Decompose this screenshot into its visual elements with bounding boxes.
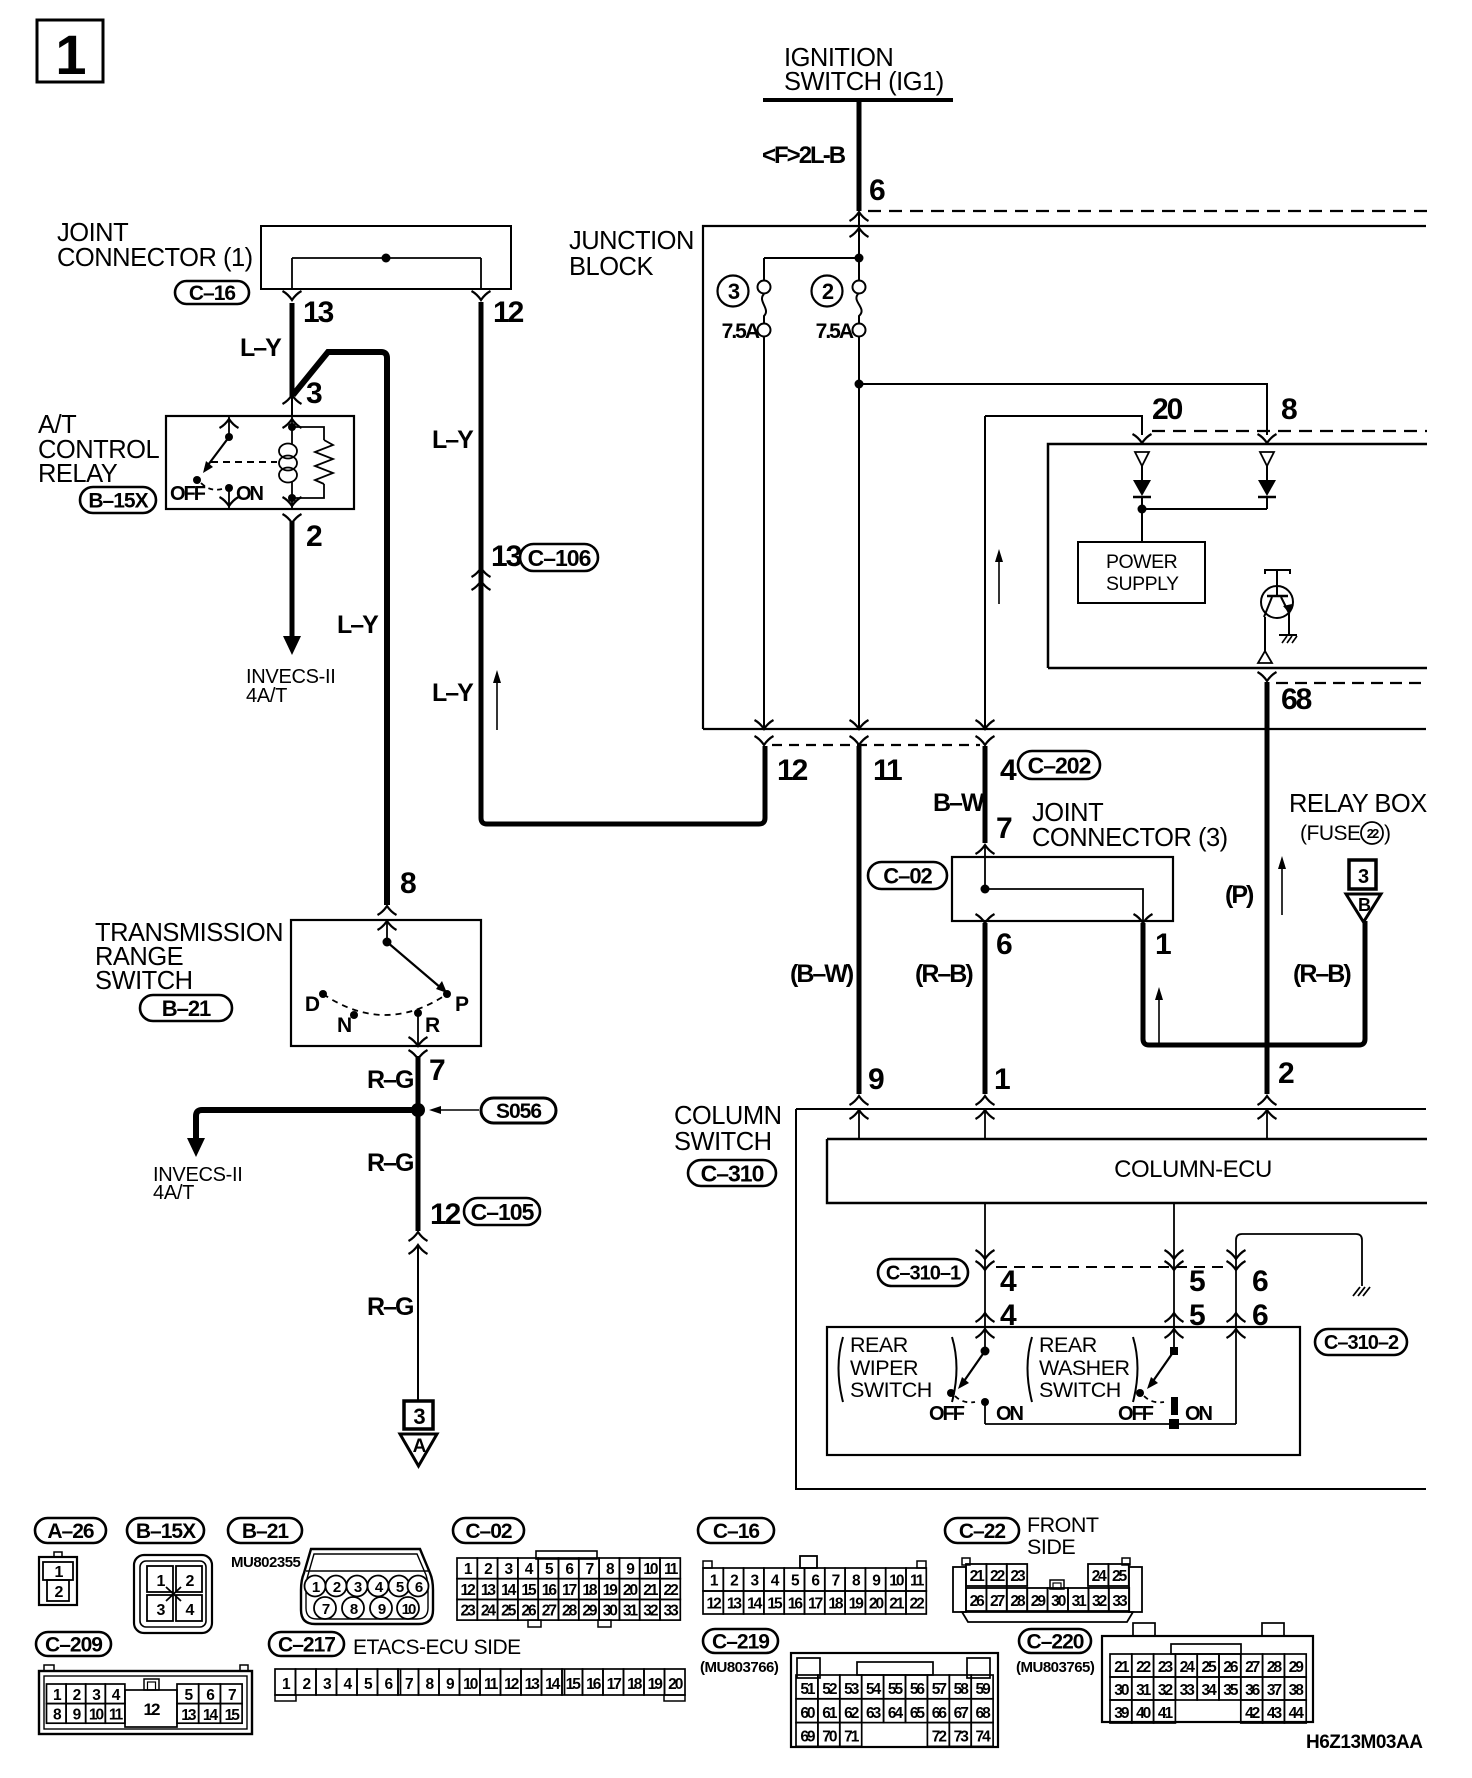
svg-text:72: 72 <box>932 1729 947 1746</box>
svg-text:BLOCK: BLOCK <box>569 253 653 281</box>
svg-text:27: 27 <box>542 1603 557 1620</box>
svg-text:WIPER: WIPER <box>850 1356 918 1380</box>
svg-text:C–105: C–105 <box>471 1199 535 1225</box>
svg-text:17: 17 <box>607 1676 622 1693</box>
svg-text:L–Y: L–Y <box>432 426 474 454</box>
svg-text:17: 17 <box>808 1596 823 1613</box>
svg-text:C–310–1: C–310–1 <box>886 1263 961 1285</box>
svg-text:2: 2 <box>1278 1057 1294 1090</box>
svg-text:RELAY BOX: RELAY BOX <box>1289 790 1427 818</box>
svg-text:10: 10 <box>89 1707 104 1724</box>
svg-text:L–Y: L–Y <box>337 611 379 639</box>
svg-text:REAR: REAR <box>1039 1333 1097 1357</box>
svg-text:40: 40 <box>1136 1705 1151 1722</box>
svg-text:SWITCH: SWITCH <box>850 1378 932 1402</box>
svg-text:7.5A: 7.5A <box>722 320 760 343</box>
svg-text:12: 12 <box>707 1596 722 1613</box>
svg-text:22: 22 <box>664 1582 679 1599</box>
svg-text:20: 20 <box>668 1676 683 1693</box>
svg-text:C–217: C–217 <box>278 1634 335 1657</box>
svg-text:(MU803765): (MU803765) <box>1016 1659 1095 1676</box>
svg-text:32: 32 <box>1158 1682 1173 1699</box>
svg-text:ON: ON <box>996 1403 1024 1425</box>
svg-text:30: 30 <box>603 1603 618 1620</box>
svg-text:C–202: C–202 <box>1028 752 1091 778</box>
svg-text:7: 7 <box>429 1054 445 1087</box>
svg-text:70: 70 <box>822 1729 837 1746</box>
svg-text:COLUMN-ECU: COLUMN-ECU <box>1114 1156 1272 1183</box>
svg-text:P: P <box>455 993 469 1016</box>
svg-text:67: 67 <box>954 1705 969 1722</box>
svg-text:<F>2L-B: <F>2L-B <box>762 142 846 169</box>
svg-text:20: 20 <box>1152 393 1183 426</box>
svg-text:C–220: C–220 <box>1027 1631 1084 1654</box>
svg-text:3: 3 <box>306 377 322 410</box>
svg-text:H6Z13M03AA: H6Z13M03AA <box>1306 1732 1423 1753</box>
svg-text:8: 8 <box>400 867 416 900</box>
svg-text:POWER: POWER <box>1106 551 1178 573</box>
svg-text:1: 1 <box>1155 928 1171 961</box>
svg-text:30: 30 <box>1114 1682 1129 1699</box>
svg-text:C–16: C–16 <box>713 1520 760 1543</box>
svg-text:OFF: OFF <box>1118 1403 1154 1425</box>
svg-text:C–02: C–02 <box>883 863 932 888</box>
svg-text:C–106: C–106 <box>528 545 591 571</box>
svg-text:10: 10 <box>463 1676 478 1693</box>
svg-text:SUPPLY: SUPPLY <box>1106 573 1179 595</box>
svg-text:(R–B): (R–B) <box>915 960 973 988</box>
svg-text:CONNECTOR (3): CONNECTOR (3) <box>1032 824 1228 852</box>
svg-text:22: 22 <box>1367 826 1379 841</box>
svg-text:R–G: R–G <box>367 1066 413 1094</box>
svg-text:CONNECTOR (1): CONNECTOR (1) <box>57 244 253 272</box>
svg-text:32: 32 <box>643 1603 658 1620</box>
svg-text:12: 12 <box>504 1676 519 1693</box>
svg-text:REAR: REAR <box>850 1333 908 1357</box>
svg-text:C–219: C–219 <box>712 1631 769 1654</box>
svg-text:3: 3 <box>413 1404 425 1429</box>
svg-text:B–15X: B–15X <box>136 1520 196 1543</box>
svg-text:B–W: B–W <box>933 789 985 817</box>
svg-text:R: R <box>425 1014 440 1037</box>
svg-text:): ) <box>1384 822 1391 845</box>
svg-text:SWITCH: SWITCH <box>1039 1378 1121 1402</box>
svg-text:C–310: C–310 <box>701 1160 764 1186</box>
svg-text:OFF: OFF <box>929 1403 965 1425</box>
svg-text:C–22: C–22 <box>959 1520 1006 1543</box>
svg-text:R–G: R–G <box>367 1149 413 1177</box>
svg-text:32: 32 <box>1092 1593 1107 1610</box>
svg-text:4A/T: 4A/T <box>153 1182 194 1204</box>
svg-text:10: 10 <box>889 1573 904 1590</box>
svg-text:L–Y: L–Y <box>240 334 282 362</box>
svg-text:1: 1 <box>994 1063 1010 1096</box>
svg-text:B–21: B–21 <box>162 996 211 1021</box>
svg-text:C–310–2: C–310–2 <box>1324 1332 1399 1354</box>
svg-text:(R–B): (R–B) <box>1293 960 1351 988</box>
svg-text:4A/T: 4A/T <box>246 685 287 707</box>
svg-text:SWITCH (IG1): SWITCH (IG1) <box>784 68 944 96</box>
svg-text:52: 52 <box>822 1681 837 1698</box>
svg-text:SIDE: SIDE <box>1027 1535 1075 1559</box>
svg-text:C–16: C–16 <box>189 282 236 305</box>
svg-text:SWITCH: SWITCH <box>95 967 193 995</box>
svg-text:12: 12 <box>144 1700 160 1719</box>
svg-text:22: 22 <box>1136 1659 1151 1676</box>
svg-text:(P): (P) <box>1225 881 1254 909</box>
svg-text:A–26: A–26 <box>47 1520 94 1543</box>
svg-text:L–Y: L–Y <box>432 679 474 707</box>
svg-text:12: 12 <box>493 296 524 329</box>
svg-text:4: 4 <box>1000 754 1017 787</box>
svg-text:R–G: R–G <box>367 1293 413 1321</box>
svg-text:12: 12 <box>430 1198 461 1231</box>
svg-text:6: 6 <box>869 174 885 207</box>
svg-text:JOINT: JOINT <box>1032 799 1103 827</box>
svg-text:13: 13 <box>491 540 522 573</box>
svg-text:7.5A: 7.5A <box>816 320 854 343</box>
svg-text:3: 3 <box>728 279 740 304</box>
svg-text:10: 10 <box>643 1561 658 1578</box>
svg-text:2: 2 <box>822 279 834 304</box>
svg-text:27: 27 <box>990 1593 1005 1610</box>
svg-text:2: 2 <box>306 520 322 553</box>
svg-text:20: 20 <box>869 1596 884 1613</box>
svg-text:6: 6 <box>996 928 1012 961</box>
svg-text:8: 8 <box>1281 393 1297 426</box>
svg-text:20: 20 <box>623 1582 638 1599</box>
svg-text:9: 9 <box>868 1063 884 1096</box>
svg-text:RELAY: RELAY <box>38 460 118 488</box>
svg-text:N: N <box>337 1014 351 1037</box>
svg-text:JUNCTION: JUNCTION <box>569 227 694 255</box>
svg-text:11: 11 <box>873 754 902 787</box>
svg-text:S056: S056 <box>496 1100 541 1123</box>
svg-text:6: 6 <box>1252 1265 1268 1298</box>
svg-text:37: 37 <box>1267 1682 1282 1699</box>
svg-text:FRONT: FRONT <box>1027 1513 1099 1537</box>
svg-text:1: 1 <box>55 23 85 86</box>
svg-text:B–15X: B–15X <box>88 490 148 513</box>
svg-text:17: 17 <box>562 1582 577 1599</box>
svg-text:7: 7 <box>996 812 1012 845</box>
svg-text:D: D <box>305 993 320 1016</box>
svg-text:(MU803766): (MU803766) <box>700 1659 779 1676</box>
svg-text:57: 57 <box>932 1681 947 1698</box>
svg-text:12: 12 <box>461 1582 476 1599</box>
svg-text:ETACS-ECU SIDE: ETACS-ECU SIDE <box>353 1636 521 1659</box>
svg-text:C–02: C–02 <box>465 1520 512 1543</box>
svg-text:10: 10 <box>402 1601 416 1618</box>
svg-text:C–209: C–209 <box>45 1634 102 1657</box>
svg-text:JOINT: JOINT <box>57 219 128 247</box>
svg-text:(FUSE: (FUSE <box>1300 822 1361 845</box>
svg-text:68: 68 <box>1281 683 1312 716</box>
svg-text:27: 27 <box>1245 1659 1260 1676</box>
svg-text:12: 12 <box>777 754 808 787</box>
svg-text:OFF: OFF <box>170 483 206 505</box>
svg-text:SWITCH: SWITCH <box>674 1128 772 1156</box>
svg-text:ON: ON <box>236 483 264 505</box>
svg-text:WASHER: WASHER <box>1039 1356 1130 1380</box>
svg-text:B–21: B–21 <box>242 1520 290 1543</box>
svg-text:ON: ON <box>1185 1403 1213 1425</box>
svg-text:60: 60 <box>800 1705 815 1722</box>
svg-text:MU802355: MU802355 <box>231 1554 301 1571</box>
svg-text:A/T: A/T <box>38 411 76 439</box>
svg-text:COLUMN: COLUMN <box>674 1102 782 1130</box>
svg-text:62: 62 <box>844 1705 859 1722</box>
svg-text:(B–W): (B–W) <box>790 960 854 988</box>
svg-text:4: 4 <box>1000 1265 1017 1298</box>
svg-text:22: 22 <box>910 1596 925 1613</box>
svg-text:22: 22 <box>990 1568 1005 1585</box>
svg-text:42: 42 <box>1245 1705 1260 1722</box>
svg-text:30: 30 <box>1051 1593 1066 1610</box>
svg-text:13: 13 <box>303 296 334 329</box>
svg-text:5: 5 <box>1189 1265 1205 1298</box>
